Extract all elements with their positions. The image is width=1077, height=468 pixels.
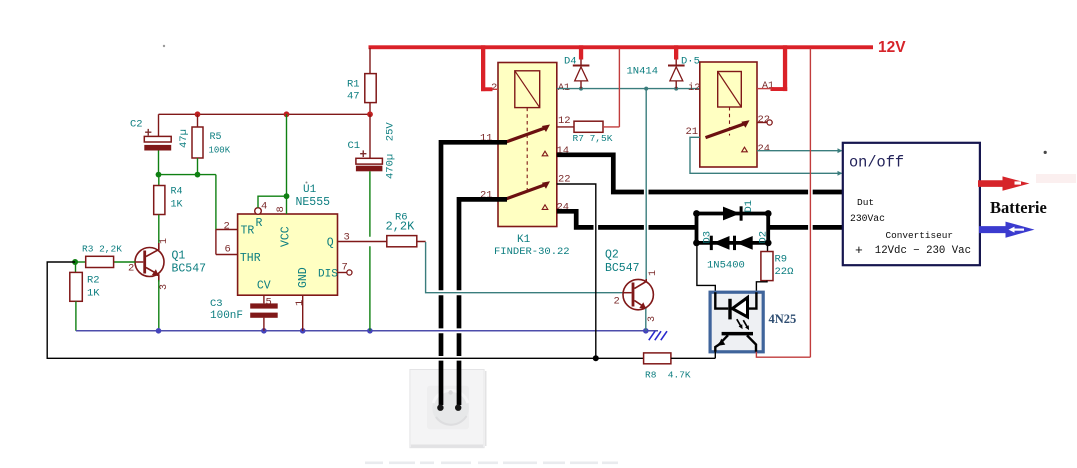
svg-text:+: + — [145, 127, 153, 141]
svg-text:2: 2 — [614, 296, 620, 308]
battery arrow blue — [979, 222, 1035, 238]
contact arm 11-12 — [507, 128, 547, 142]
wire K1 pin24 thick black to diode block — [557, 211, 843, 227]
resistor R1 — [365, 74, 376, 103]
plug cable left (pin 11) — [441, 142, 507, 405]
wire R6 to Q2 base — [426, 242, 623, 293]
svg-text:GND: GND — [297, 267, 310, 288]
resistor R6 — [338, 241, 426, 243]
svg-text:Q2: Q2 — [605, 249, 619, 262]
optocoupler U3 4N25 — [710, 292, 763, 352]
svg-text:100K: 100K — [209, 146, 231, 156]
svg-text:1K: 1K — [87, 288, 100, 300]
svg-text:K1: K1 — [517, 234, 531, 246]
svg-text:2: 2 — [128, 263, 134, 275]
12V power rail — [369, 45, 874, 49]
coil line A1 to A2 of K2 — [557, 88, 700, 90]
resistor R5 — [197, 114, 199, 127]
wire green node row — [159, 174, 216, 176]
svg-text:47: 47 — [347, 91, 360, 103]
converter box on/off — [843, 143, 980, 265]
wire to TR/THR — [215, 175, 217, 230]
node at R5 top — [195, 111, 201, 117]
svg-text:on/off: on/off — [849, 154, 904, 172]
wire black feedback loop left — [47, 262, 643, 358]
GND pin 1 stub — [302, 295, 304, 331]
resistor R4 — [158, 175, 160, 186]
svg-text:1N414: 1N414 — [627, 66, 659, 78]
diode D5 — [674, 45, 678, 59]
svg-text:D·5: D·5 — [681, 56, 700, 68]
ground bus blue — [76, 330, 658, 332]
wire Q2 collector riser — [645, 89, 647, 280]
wire rail to R1 — [369, 48, 371, 74]
svg-text:1: 1 — [648, 270, 659, 276]
svg-text:Dut: Dut — [857, 197, 874, 208]
svg-text:Convertiseur: Convertiseur — [886, 230, 954, 241]
svg-text:22Ω: 22Ω — [775, 266, 794, 278]
diode D1 — [697, 212, 769, 216]
svg-text:230Vac: 230Vac — [850, 213, 885, 224]
wall socket photo — [410, 370, 484, 448]
svg-text:BC547: BC547 — [605, 262, 640, 275]
wire K2 pin24 to converter — [757, 150, 842, 152]
battery arrow red — [978, 176, 1030, 190]
resistor R3 — [75, 261, 86, 263]
svg-text:R2: R2 — [87, 275, 100, 287]
svg-text:Batterie: Batterie — [990, 198, 1047, 217]
node at R1 bottom — [367, 111, 373, 117]
svg-text:Q1: Q1 — [172, 250, 186, 263]
resistor R7 — [557, 126, 574, 128]
svg-text:DIS: DIS — [318, 269, 338, 281]
socket holes — [437, 405, 443, 411]
svg-text:21: 21 — [686, 126, 699, 138]
svg-text:NE555: NE555 — [296, 196, 331, 209]
diode D3 — [697, 241, 769, 245]
pin 24 marker K2 — [742, 147, 748, 152]
misc faint marks — [163, 45, 165, 47]
svg-text:U1: U1 — [303, 184, 317, 196]
svg-text:1N5400: 1N5400 — [707, 260, 745, 272]
node pin22/R8 junction — [593, 355, 599, 361]
svg-text:THR: THR — [240, 252, 261, 265]
wire reset/vcc green — [258, 114, 287, 214]
opto bottom-left pin to ground loop — [714, 352, 716, 359]
svg-text:R5: R5 — [210, 132, 222, 143]
resistor R2 — [75, 262, 77, 272]
svg-text:R4: R4 — [171, 187, 183, 198]
svg-text:+: + — [855, 243, 863, 258]
svg-text:R7 7,5K: R7 7,5K — [573, 133, 613, 144]
svg-text:R3 2,2K: R3 2,2K — [82, 244, 122, 255]
svg-text:8: 8 — [275, 206, 287, 212]
svg-text:3: 3 — [647, 316, 658, 322]
transistor Q1 — [135, 248, 164, 277]
svg-text:+: + — [360, 148, 368, 162]
svg-text:VCC: VCC — [280, 226, 293, 247]
ground symbol — [649, 331, 667, 340]
wire K2 pin21 to converter — [690, 137, 842, 173]
diode block left bar — [695, 214, 699, 243]
svg-text:R8 4.7K: R8 4.7K — [645, 370, 691, 381]
svg-text:2,2K: 2,2K — [386, 220, 416, 234]
diode block corner nodes — [693, 210, 700, 217]
svg-text:R1: R1 — [347, 79, 360, 91]
svg-text:C2: C2 — [130, 119, 143, 131]
svg-text:2: 2 — [224, 221, 230, 233]
pin 24 marker — [542, 205, 548, 210]
svg-text:C1: C1 — [348, 140, 361, 152]
svg-text:D1: D1 — [743, 200, 755, 213]
wire diode block to opto LED — [697, 243, 715, 292]
svg-text:4N25: 4N25 — [769, 312, 797, 326]
svg-text:6: 6 — [225, 244, 231, 256]
resistor R8 — [644, 353, 671, 364]
capacitor C2 — [158, 114, 160, 136]
svg-text:FINDER-30.22: FINDER-30.22 — [494, 246, 570, 258]
svg-text:R9: R9 — [775, 254, 788, 266]
svg-text:470µ 25V: 470µ 25V — [385, 122, 397, 179]
svg-text:3: 3 — [159, 284, 170, 290]
svg-text:Q: Q — [327, 237, 334, 250]
svg-text:C3: C3 — [210, 298, 223, 310]
node R2/R3 — [72, 259, 78, 265]
contact arm 21-22 — [507, 184, 547, 198]
pin 4 reset circle — [255, 208, 262, 215]
svg-text:1: 1 — [159, 238, 170, 244]
wire K1 pin22 black down — [557, 184, 596, 358]
pin 7 DIS stub — [338, 272, 347, 274]
svg-text:BC547: BC547 — [172, 263, 207, 276]
wire R1 to node — [369, 103, 371, 115]
svg-text:i2: i2 — [688, 82, 701, 94]
contact arm K2 — [706, 123, 746, 137]
pin 22 open terminal — [757, 122, 767, 124]
svg-text:D4: D4 — [564, 56, 577, 68]
svg-text:CV: CV — [257, 280, 271, 293]
svg-text:12: 12 — [558, 115, 571, 127]
svg-text:TR: TR — [241, 225, 255, 238]
capacitor C1 — [369, 114, 371, 158]
transistor Q2 — [623, 279, 653, 309]
svg-text:12V: 12V — [878, 39, 906, 56]
node at VCC riser — [284, 111, 290, 117]
wire top horizontal bus C2 to R1 — [159, 113, 371, 115]
svg-text:D3: D3 — [702, 231, 714, 244]
thick red drop to K2 A1 — [783, 45, 787, 91]
diode D4 — [579, 45, 583, 59]
pin 14 marker — [542, 151, 548, 156]
resistor R9 — [767, 243, 769, 252]
svg-text:47µ: 47µ — [178, 129, 190, 148]
relay K1 — [498, 63, 557, 227]
diode D2 — [733, 236, 736, 250]
svg-text:24: 24 — [758, 143, 771, 155]
svg-text:12Vdc − 230 Vac: 12Vdc − 230 Vac — [875, 245, 971, 257]
svg-text:1: 1 — [294, 300, 306, 306]
thick red drop to K1 coil A2 — [481, 45, 485, 91]
timer U1 NE555 — [238, 214, 338, 295]
svg-text:100nF: 100nF — [210, 310, 243, 322]
wire K1 pin14 thick black to converter — [557, 155, 843, 192]
plug cable right (pin 21) — [459, 199, 507, 405]
svg-text:1K: 1K — [171, 200, 183, 211]
svg-text:R: R — [256, 217, 263, 230]
relay K2 — [700, 62, 757, 167]
diode block right bar — [766, 214, 770, 243]
opto emitter to 12V red line — [756, 48, 810, 357]
capacitor C3 — [263, 295, 265, 331]
